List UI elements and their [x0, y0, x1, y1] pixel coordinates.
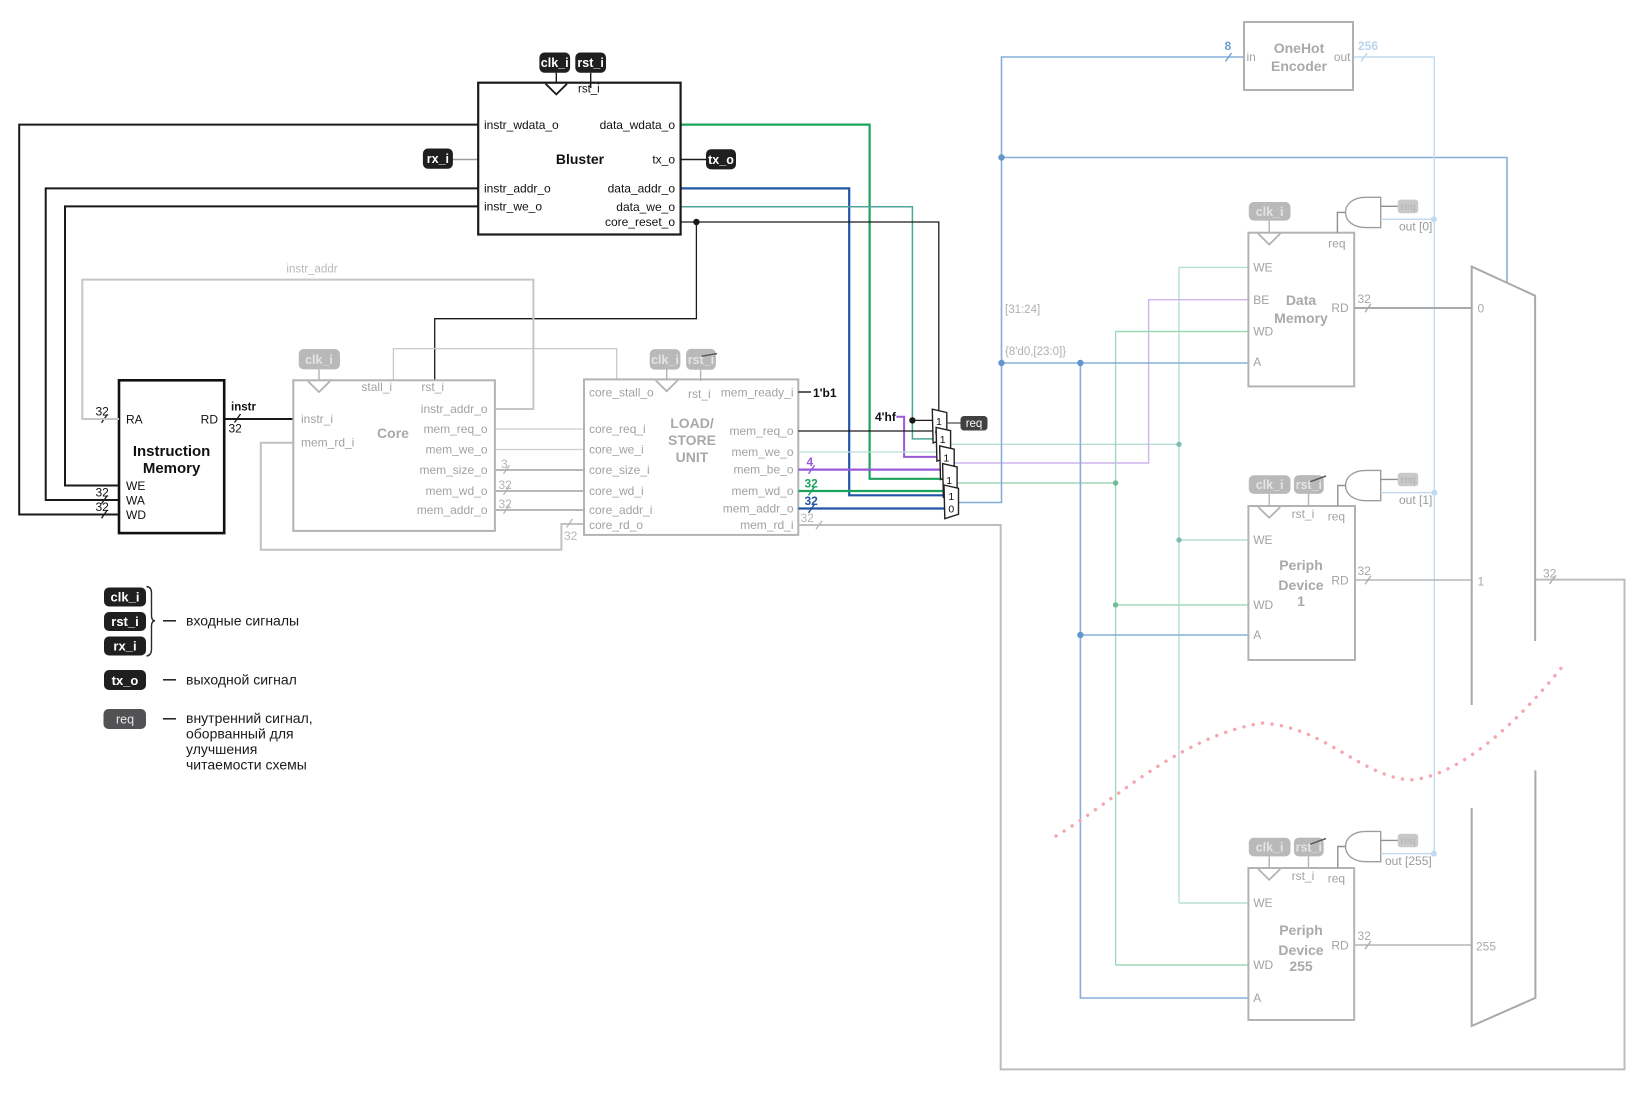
svg-text:out: out: [1334, 50, 1351, 64]
wire gate out1 to onehot rail: [1381, 492, 1435, 494]
svg-text:data_wdata_o: data_wdata_o: [600, 118, 676, 132]
wire gate out1 to req pill: [1381, 478, 1398, 480]
svg-text:32: 32: [564, 529, 578, 543]
svg-text:Instruction: Instruction: [133, 443, 211, 460]
svg-text:core_rd_o: core_rd_o: [589, 518, 643, 532]
svg-text:tx_o: tx_o: [708, 153, 734, 167]
svg-text:4: 4: [807, 455, 814, 469]
svg-text:32: 32: [229, 422, 243, 436]
legend pill req: [104, 709, 147, 729]
svg-text:Periph: Periph: [1279, 922, 1323, 938]
block Data Memory: [1248, 233, 1354, 387]
pill clk_i above Core: [318, 369, 320, 380]
wire instr_addr_o (Bluster to Instruction Memory WA): [46, 188, 479, 500]
net addr select branch to big mux: [1002, 158, 1508, 283]
wire instr (IM RD to Core instr_i): [224, 418, 293, 420]
svg-text:WA: WA: [126, 493, 145, 507]
svg-text:255: 255: [1289, 958, 1313, 974]
svg-text:0: 0: [1478, 302, 1485, 316]
svg-text:req: req: [1400, 201, 1415, 213]
svg-text:core_wd_i: core_wd_i: [589, 484, 644, 498]
mux M5 shape: [944, 485, 959, 519]
svg-text:A: A: [1253, 628, 1261, 642]
tick over Periph255 rst_i pill: [1310, 839, 1326, 845]
svg-text:core_req_i: core_req_i: [589, 422, 646, 436]
dotted break curve: [1056, 662, 1566, 836]
wire mem_addr_o dark blue to mux5 input 0: [798, 507, 945, 509]
svg-text:WE: WE: [126, 479, 145, 493]
svg-text:req: req: [1400, 835, 1415, 847]
svg-text:instr_wdata_o: instr_wdata_o: [484, 118, 559, 132]
svg-text:WD: WD: [126, 508, 146, 522]
pill clk_i above LSU: [666, 370, 668, 380]
svg-text:Bluster: Bluster: [556, 151, 605, 167]
svg-text:32: 32: [96, 486, 110, 500]
svg-text:{8'd0,[23:0]}: {8'd0,[23:0]}: [1005, 346, 1066, 358]
svg-text:1: 1: [1478, 575, 1485, 589]
svg-text:core_addr_i: core_addr_i: [589, 503, 652, 517]
svg-text:clk_i: clk_i: [305, 353, 333, 367]
gate AND out255: [1346, 831, 1381, 861]
svg-text:core_reset_o: core_reset_o: [605, 215, 675, 229]
tick over Periph1 rst_i pill: [1310, 476, 1326, 482]
svg-text:core_size_i: core_size_i: [589, 463, 650, 477]
legend pill rst_i: [104, 612, 146, 631]
pill clk_i above Bluster: [555, 73, 557, 83]
wire data_addr_o dark blue from Bluster down to mux5 input 1: [681, 188, 945, 495]
svg-text:out [1]: out [1]: [1399, 493, 1432, 507]
svg-text:req: req: [966, 418, 983, 430]
svg-text:req: req: [116, 713, 134, 727]
svg-text:rst_i: rst_i: [1292, 507, 1315, 521]
wire core_reset_o black to mux1 select: [681, 222, 939, 411]
clock chevron Bluster: [546, 84, 567, 95]
svg-text:rst_i: rst_i: [577, 56, 603, 70]
svg-text:255: 255: [1476, 940, 1496, 954]
svg-text:mem_we_o: mem_we_o: [425, 443, 487, 457]
svg-text:1'b1: 1'b1: [813, 386, 837, 400]
net instr_addr (Core instr_addr_o to IM RA): [82, 280, 533, 419]
svg-text:instr_we_o: instr_we_o: [484, 200, 542, 214]
svg-text:req: req: [1328, 872, 1345, 886]
svg-text:UNIT: UNIT: [676, 449, 709, 465]
svg-text:внутренний сигнал,: внутренний сигнал,: [186, 710, 313, 726]
svg-text:rst_i: rst_i: [111, 614, 138, 629]
net core_rd (LSU core_rd_o to Core mem_rd_i): [261, 443, 584, 550]
wire gate out255 to req pill: [1381, 839, 1398, 841]
svg-text:tx_o: tx_o: [652, 153, 675, 167]
net mem_rd big gray return loop: [798, 525, 1624, 1069]
svg-text:mem_wd_o: mem_wd_o: [731, 484, 793, 498]
clock chevron LSU: [656, 380, 678, 391]
svg-text:1: 1: [1297, 593, 1305, 609]
pill rst_i above LSU: [700, 370, 702, 381]
svg-text:rst_i: rst_i: [1296, 841, 1322, 855]
svg-text:STORE: STORE: [668, 432, 716, 448]
svg-text:clk_i: clk_i: [651, 353, 679, 367]
wire mem_req_o black to mux1 input 0: [798, 430, 932, 432]
wire instr_wdata_o (Bluster to Instruction Memory WD): [19, 125, 478, 515]
svg-text:RD: RD: [201, 412, 219, 426]
svg-text:core_stall_o: core_stall_o: [589, 386, 654, 400]
svg-text:data_addr_o: data_addr_o: [608, 182, 676, 196]
svg-text:32: 32: [805, 477, 819, 491]
wire mem_be_o purple to mux3 input 0: [798, 469, 941, 471]
wire core_size (Core mem_size_o to LSU core_size_i): [495, 469, 584, 471]
net addr (mux5 out up to OneHot and A ports): [959, 57, 1244, 503]
junction dot core_reset: [693, 219, 699, 225]
big output mux upper half: [1472, 267, 1535, 705]
svg-text:[31:24]: [31:24]: [1005, 304, 1040, 316]
svg-text:32: 32: [96, 405, 110, 419]
block Instruction Memory: [119, 380, 224, 533]
svg-text:32: 32: [499, 497, 513, 511]
svg-text:clk_i: clk_i: [111, 590, 140, 605]
svg-text:читаемости схемы: читаемости схемы: [186, 757, 307, 773]
wire core_reset branch to Core rst_i: [435, 222, 697, 380]
legend brace: [147, 587, 156, 657]
svg-text:входные сигналы: входные сигналы: [186, 613, 299, 629]
svg-text:rst_i: rst_i: [578, 84, 600, 96]
wire core_req (Core mem_req_o to LSU core_req_i): [495, 428, 584, 430]
legend pill tx_o: [104, 670, 146, 690]
svg-text:1: 1: [943, 453, 949, 465]
svg-text:RD: RD: [1331, 301, 1349, 315]
block Core: [293, 380, 495, 531]
svg-text:instr_addr: instr_addr: [286, 264, 337, 276]
svg-text:OneHot: OneHot: [1274, 40, 1325, 56]
svg-text:Memory: Memory: [143, 460, 201, 477]
gate AND out1: [1346, 470, 1381, 500]
svg-text:WD: WD: [1253, 325, 1273, 339]
svg-text:RA: RA: [126, 412, 143, 426]
svg-text:rst_i: rst_i: [421, 380, 444, 394]
svg-text:WE: WE: [1253, 896, 1272, 910]
wire instr_we_o (Bluster to Instruction Memory WE): [65, 206, 478, 485]
svg-text:RD: RD: [1331, 938, 1349, 952]
svg-text:mem_req_o: mem_req_o: [423, 422, 487, 436]
svg-text:LOAD/: LOAD/: [670, 415, 714, 431]
pill req faded at out1: [1398, 473, 1419, 487]
svg-text:instr: instr: [231, 402, 256, 414]
mux M3 shape: [940, 446, 955, 480]
wire core_we (Core mem_we_o to LSU core_we_i): [495, 449, 584, 451]
svg-text:clk_i: clk_i: [1256, 205, 1284, 219]
wire Periph255 req to gate: [1338, 847, 1346, 869]
svg-text:rst_i: rst_i: [1292, 869, 1315, 883]
wire gate out0 to req pill: [1381, 205, 1398, 207]
wire data_wdata_o green from Bluster down to mux4: [681, 125, 944, 479]
constant 1'b1 on mem_ready_i: [798, 391, 811, 393]
svg-text:mem_req_o: mem_req_o: [729, 424, 793, 438]
block Bluster: [478, 83, 680, 235]
pill req faded at out255: [1398, 834, 1419, 848]
wire Data Memory req to gate: [1337, 212, 1346, 232]
svg-text:A: A: [1253, 991, 1261, 1005]
svg-text:rst_i: rst_i: [1296, 478, 1322, 492]
wire Periph1 RD to big mux input 1: [1355, 579, 1472, 581]
block OneHot Encoder: [1244, 22, 1353, 90]
svg-text:32: 32: [1358, 929, 1372, 943]
block Periph Device 1: [1248, 506, 1355, 660]
svg-text:req: req: [1328, 510, 1345, 524]
svg-text:BE: BE: [1253, 293, 1269, 307]
svg-text:32: 32: [805, 494, 819, 508]
svg-text:оборванный для: оборванный для: [186, 726, 294, 742]
block LOAD/STORE UNIT: [584, 379, 798, 535]
wire core_addr (Core mem_addr_o to LSU core_addr_i): [495, 509, 584, 511]
wire tx_o from Bluster: [681, 159, 706, 161]
svg-text:req: req: [1400, 474, 1415, 486]
svg-text:1: 1: [948, 491, 954, 503]
svg-text:32: 32: [96, 500, 110, 514]
wire Periph1 req to gate: [1338, 486, 1346, 507]
svg-text:32: 32: [1358, 564, 1372, 578]
wire mux1 out to req pill: [947, 422, 961, 424]
net addr low bits branch to A ports: [1002, 363, 1249, 998]
svg-text:req: req: [1328, 237, 1345, 251]
svg-text:1: 1: [940, 434, 946, 446]
svg-text:WE: WE: [1253, 261, 1272, 275]
wire mem_we_o light teal to mux2 input 0: [798, 451, 937, 453]
svg-text:instr_i: instr_i: [301, 412, 333, 426]
mux M1 shape: [932, 409, 947, 443]
svg-text:mem_be_o: mem_be_o: [733, 463, 793, 477]
wire gate out255 to onehot rail: [1381, 853, 1434, 855]
wire mem_wd_o green to mux4 input 0: [798, 490, 943, 492]
net core_stall (LSU top to Core stall_i): [393, 349, 616, 381]
pill rst_i above Bluster: [590, 73, 592, 88]
svg-text:clk_i: clk_i: [1256, 478, 1284, 492]
svg-text:Memory: Memory: [1274, 310, 1328, 326]
svg-text:mem_ready_i: mem_ready_i: [721, 386, 794, 400]
pill clk_i above Periph1: [1268, 494, 1270, 506]
svg-text:Device: Device: [1278, 577, 1323, 593]
pill clk_i above Data Memory: [1268, 221, 1270, 233]
pill clk_i above Periph255: [1268, 856, 1270, 868]
pill req internal: [961, 416, 988, 431]
svg-text:256: 256: [1358, 39, 1378, 53]
svg-text:RD: RD: [1331, 573, 1349, 587]
svg-text:out [255]: out [255]: [1385, 854, 1432, 868]
wire Data Memory RD to big mux input 0: [1354, 307, 1472, 309]
net we faded (mux2 out to WE ports): [951, 267, 1248, 444]
svg-text:data_we_o: data_we_o: [616, 200, 675, 214]
mux M2 shape: [936, 427, 951, 461]
svg-text:core_we_i: core_we_i: [589, 443, 644, 457]
wire rx_i to Bluster: [452, 159, 478, 161]
svg-text:rst_i: rst_i: [688, 387, 711, 401]
block Periph Device 255: [1248, 868, 1354, 1020]
svg-text:rx_i: rx_i: [427, 152, 449, 166]
svg-text:WD: WD: [1253, 958, 1273, 972]
svg-text:mem_wd_o: mem_wd_o: [425, 484, 487, 498]
gate AND out0 (left facing): [1346, 197, 1381, 227]
svg-text:mem_rd_i: mem_rd_i: [740, 518, 793, 532]
svg-text:tx_o: tx_o: [112, 673, 139, 688]
svg-text:clk_i: clk_i: [541, 56, 569, 70]
svg-text:32: 32: [1543, 567, 1557, 581]
svg-text:out [0]: out [0]: [1399, 220, 1432, 234]
pill rst_i above Periph255: [1308, 856, 1310, 868]
legend pill rx_i: [104, 637, 146, 656]
svg-text:mem_size_o: mem_size_o: [419, 463, 487, 477]
clock chevron Periph1: [1258, 507, 1280, 518]
svg-text:WE: WE: [1253, 533, 1272, 547]
wire Periph255 RD to big mux input 255: [1354, 944, 1472, 946]
pill rx_i: [423, 149, 453, 169]
svg-text:Core: Core: [377, 425, 409, 441]
svg-text:32: 32: [499, 478, 513, 492]
svg-text:4'hf: 4'hf: [875, 410, 897, 424]
svg-text:instr_addr_o: instr_addr_o: [484, 182, 551, 196]
clock chevron Core: [308, 381, 330, 392]
svg-text:выходной сигнал: выходной сигнал: [186, 672, 297, 688]
svg-text:0: 0: [948, 503, 954, 515]
net be faded (mux3 out to Data Memory BE): [955, 300, 1249, 463]
pill tx_o: [706, 149, 736, 169]
pill rst_i above Periph1: [1308, 494, 1310, 506]
svg-text:32: 32: [1358, 292, 1372, 306]
svg-text:WD: WD: [1253, 598, 1273, 612]
pill req faded at out0: [1398, 200, 1419, 214]
clock chevron Data Memory: [1258, 234, 1280, 245]
svg-text:Device: Device: [1278, 942, 1323, 958]
wire gate out0 to onehot rail: [1381, 218, 1434, 220]
wire mux1 input 1 with junction dot on data_we vertical: [912, 419, 933, 421]
big output mux lower half: [1472, 770, 1536, 1026]
tick over LSU rst_i pill: [702, 354, 718, 357]
wire core_wd (Core mem_wd_o to LSU core_wd_i): [495, 490, 584, 492]
svg-text:instr_addr_o: instr_addr_o: [421, 402, 488, 416]
net wd faded (mux4 out to WD ports): [957, 332, 1248, 484]
legend pill clk_i: [104, 588, 146, 607]
svg-text:in: in: [1247, 50, 1256, 64]
svg-text:улучшения: улучшения: [186, 741, 257, 757]
svg-text:mem_we_o: mem_we_o: [731, 445, 793, 459]
mux M4 shape: [943, 464, 958, 498]
clock chevron Periph255: [1258, 869, 1280, 880]
svg-text:mem_rd_i: mem_rd_i: [301, 436, 354, 450]
svg-text:stall_i: stall_i: [361, 380, 392, 394]
svg-text:8: 8: [1225, 39, 1232, 53]
svg-text:clk_i: clk_i: [1256, 841, 1284, 855]
svg-text:Encoder: Encoder: [1271, 58, 1328, 74]
net onehot out 256-bit rail: [1353, 57, 1434, 854]
svg-text:A: A: [1253, 355, 1261, 369]
svg-text:32: 32: [801, 511, 815, 525]
svg-text:mem_addr_o: mem_addr_o: [723, 502, 794, 516]
constant 4'hf purple wire to mux3 input 1: [896, 417, 940, 457]
svg-text:Data: Data: [1286, 292, 1317, 308]
svg-text:rx_i: rx_i: [113, 639, 136, 654]
svg-text:Periph: Periph: [1279, 557, 1323, 573]
svg-text:mem_addr_o: mem_addr_o: [417, 503, 488, 517]
wire data_we_o teal from Bluster down to mux2 input 1: [681, 207, 937, 439]
